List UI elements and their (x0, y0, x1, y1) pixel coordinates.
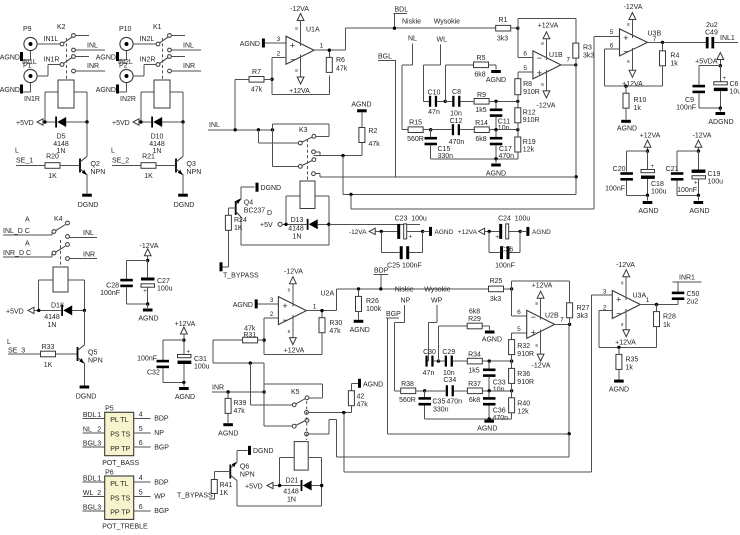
svg-text:470n: 470n (447, 399, 463, 406)
op-amp U1B (533, 51, 563, 79)
op-amp U1A (286, 27, 320, 65)
wire U2B out down (568, 324, 570, 433)
svg-text:Q4: Q4 (244, 200, 253, 207)
svg-text:4: 4 (139, 411, 143, 418)
net label IN1L (44, 36, 59, 43)
ground AGND C23 (423, 227, 454, 236)
svg-text:BGL: BGL (83, 504, 97, 511)
svg-text:R29: R29 (468, 316, 481, 323)
ground ADGND (708, 108, 733, 126)
svg-text:100nF: 100nF (676, 105, 696, 112)
power -12VA U1B (537, 70, 556, 110)
svg-text:AGND: AGND (233, 302, 253, 309)
node C30/C29 junction (437, 326, 467, 363)
svg-text:10n: 10n (493, 386, 505, 393)
pin 1 output U3A (640, 297, 678, 306)
svg-text:AGND: AGND (218, 431, 238, 438)
svg-text:DGND: DGND (261, 185, 282, 192)
svg-text:2: 2 (97, 490, 101, 497)
ground DGND (78, 175, 99, 210)
relay coil K2 (58, 80, 74, 108)
resistor R34 (467, 352, 502, 375)
svg-text:P9: P9 (23, 26, 32, 33)
wire (350, 194, 352, 209)
capacitor C32 (137, 356, 169, 383)
ground DGND Q6 (248, 446, 274, 455)
svg-text:IN2R: IN2R (140, 57, 156, 64)
ground AGND at U2A pin3 (233, 299, 279, 308)
svg-text:910R: 910R (523, 89, 540, 96)
wire (37, 43, 60, 45)
svg-text:C29: C29 (442, 349, 455, 356)
svg-text:K3: K3 (299, 127, 308, 134)
svg-text:AGND: AGND (240, 41, 260, 48)
resistor R32 (509, 333, 534, 361)
svg-text:1k: 1k (670, 61, 678, 68)
svg-text:5: 5 (139, 426, 143, 433)
svg-text:10n: 10n (443, 370, 455, 377)
wire (286, 196, 300, 224)
relay switch K4 (3, 216, 69, 266)
svg-text:2: 2 (270, 311, 274, 318)
svg-text:K1: K1 (153, 24, 162, 31)
transistor Q5 (77, 310, 103, 364)
power -12VA U3B (624, 4, 643, 38)
svg-text:+: + (537, 68, 542, 78)
diode D10 (139, 117, 184, 156)
svg-text:U2B: U2B (545, 313, 559, 320)
svg-text:D18: D18 (51, 303, 64, 310)
svg-text:47k: 47k (336, 66, 348, 73)
wire INR stub (69, 252, 97, 259)
svg-text:1K: 1K (48, 173, 57, 180)
svg-text:-12VA: -12VA (537, 103, 556, 110)
power +12VA U2A (284, 315, 305, 355)
wire INR routing (213, 340, 264, 426)
svg-text:100u: 100u (708, 179, 724, 186)
capacitor C15 (425, 130, 454, 160)
svg-text:Niskie: Niskie (402, 19, 421, 26)
svg-text:R14: R14 (475, 120, 488, 127)
svg-text:100nF: 100nF (137, 356, 157, 363)
svg-text:1: 1 (97, 476, 101, 483)
capacitor C6 (714, 66, 740, 109)
svg-text:12k: 12k (523, 147, 535, 154)
capacitor C34 (425, 377, 468, 396)
wire K3 common1 stub (258, 130, 298, 143)
svg-text:R28: R28 (663, 314, 676, 321)
svg-text:1k5: 1k5 (468, 368, 479, 375)
net label BGP (386, 311, 401, 434)
svg-text:R9: R9 (477, 92, 486, 99)
svg-text:U1A: U1A (306, 27, 320, 34)
svg-text:1K: 1K (220, 490, 229, 497)
resistor R7 (235, 69, 272, 94)
svg-text:560R: 560R (407, 136, 424, 143)
net label INL1 (720, 35, 738, 42)
wire INL stub (171, 43, 201, 51)
pin 6 wire U3B (604, 42, 626, 86)
svg-text:DGND: DGND (78, 202, 99, 209)
svg-text:+: + (694, 180, 698, 186)
power -12VA U2B (532, 330, 551, 370)
svg-text:SE_1: SE_1 (16, 158, 33, 165)
resistor R35 (616, 347, 639, 379)
svg-text:+5VD: +5VD (245, 484, 263, 491)
label Wysokie bottom (424, 287, 450, 294)
node R38/C34/C35 junction (423, 389, 426, 392)
svg-text:4148: 4148 (283, 489, 299, 496)
wire INL stub (69, 230, 97, 238)
wire K5 throw2b zigzag (308, 419, 336, 457)
pin 5 wire (518, 65, 533, 72)
capacitor C11 (490, 101, 510, 132)
svg-text:P6: P6 (105, 469, 114, 476)
svg-text:+: + (143, 289, 147, 295)
wire to U3B pin5 (351, 208, 594, 210)
resistor R36 (509, 361, 534, 391)
svg-text:AGND: AGND (477, 426, 497, 433)
resistor R25 (489, 278, 512, 303)
svg-text:C49: C49 (705, 30, 718, 37)
svg-text:IN1R: IN1R (44, 57, 60, 64)
pin 5 wire U2B (512, 326, 527, 333)
svg-text:AGND: AGND (96, 87, 116, 94)
resistor R21 (141, 154, 175, 181)
svg-text:INR: INR (212, 385, 224, 392)
power +12VA U3B (622, 48, 643, 88)
connector P9 (23, 26, 37, 51)
capacitor C27 (141, 261, 173, 305)
resistor R42 (348, 391, 368, 413)
svg-text:R15: R15 (409, 120, 422, 127)
capacitor C35 (419, 391, 463, 419)
terminal T_BYPASS (220, 262, 259, 279)
svg-text:+5VD: +5VD (6, 309, 24, 316)
svg-text:1N: 1N (293, 234, 302, 241)
svg-text:1: 1 (646, 297, 650, 304)
resistor R5 (474, 55, 497, 79)
svg-text:910R: 910R (517, 351, 534, 358)
svg-text:330n: 330n (433, 407, 449, 414)
node Y wire (494, 128, 519, 131)
svg-text:R12: R12 (523, 110, 536, 117)
svg-text:+12VA: +12VA (640, 133, 661, 140)
svg-text:R37: R37 (468, 381, 481, 388)
svg-text:R4: R4 (670, 53, 679, 60)
capacitor C50 (672, 282, 700, 306)
svg-text:+: + (616, 295, 621, 305)
power -12VA U2A (284, 269, 303, 307)
svg-text:47k: 47k (329, 328, 341, 335)
capacitor C30 (423, 349, 439, 377)
svg-text:−: − (282, 315, 287, 325)
pin 2 wire U2A (262, 311, 278, 355)
svg-text:C10: C10 (428, 90, 441, 97)
power -12VA (290, 6, 309, 46)
capacitor C26 (489, 231, 520, 269)
svg-text:1N: 1N (287, 497, 296, 504)
resistor R27 (567, 303, 590, 325)
svg-text:C8: C8 (452, 89, 461, 96)
svg-text:IN1L: IN1L (44, 36, 59, 43)
svg-text:BGP: BGP (386, 311, 401, 318)
ground AGND (138, 304, 158, 323)
ground DGND (174, 175, 195, 210)
svg-text:3: 3 (277, 36, 281, 43)
svg-text:R40: R40 (517, 401, 530, 408)
wire (315, 196, 329, 245)
svg-text:WP: WP (154, 494, 166, 501)
svg-text:910R: 910R (523, 117, 540, 124)
wire Q6 top to DGND (237, 450, 248, 462)
svg-text:IN1R: IN1R (24, 96, 40, 103)
resistor R2 (359, 128, 380, 156)
power +5VD (16, 119, 55, 127)
wire K5 box top (264, 384, 322, 398)
power +12VA (175, 321, 196, 340)
wire R7 to INL (234, 79, 236, 130)
svg-text:C50: C50 (687, 291, 700, 298)
svg-text:R39: R39 (234, 400, 247, 407)
resistor R8 (515, 72, 540, 102)
power +12VA U3A (621, 309, 630, 337)
svg-text:INL_D C: INL_D C (3, 228, 30, 235)
connector P5 POT_BASS (83, 406, 170, 467)
svg-text:6: 6 (517, 309, 521, 316)
svg-text:R33: R33 (42, 344, 55, 351)
svg-text:+5V: +5V (260, 222, 273, 229)
relay coil K4 (53, 267, 68, 292)
wire feedback U3B (604, 85, 662, 88)
resistor R12 (515, 101, 540, 129)
svg-text:NP: NP (401, 298, 411, 305)
svg-text:PL TL: PL TL (110, 481, 128, 488)
svg-text:C20: C20 (613, 166, 626, 173)
pin 3 wire U3A (592, 289, 613, 296)
svg-text:R35: R35 (626, 357, 639, 364)
diode D5 (43, 117, 88, 156)
svg-text:3k3: 3k3 (490, 296, 501, 303)
pin 3 U2A (270, 297, 274, 304)
pin 2 wire U3A (599, 305, 656, 349)
net label IN1R (44, 57, 60, 64)
svg-text:AGND: AGND (617, 126, 637, 133)
svg-text:T_BYPASS: T_BYPASS (177, 493, 213, 500)
resistor R1 (496, 17, 518, 43)
wire (127, 302, 150, 305)
svg-text:AGND: AGND (689, 208, 709, 215)
svg-text:3: 3 (97, 504, 101, 511)
svg-text:NL: NL (83, 426, 92, 433)
connector P1 (23, 63, 37, 83)
svg-text:100u: 100u (651, 189, 667, 196)
svg-text:+: + (282, 301, 287, 311)
connector P6 POT_TREBLE (83, 469, 170, 530)
svg-text:BGL: BGL (83, 441, 97, 448)
ground AGND (0, 83, 31, 94)
power -12VA (140, 243, 159, 261)
ground DGND (76, 363, 97, 401)
svg-text:R34: R34 (468, 352, 481, 359)
svg-text:POT_TREBLE: POT_TREBLE (102, 524, 148, 531)
svg-text:C28: C28 (106, 283, 119, 290)
svg-text:IN2R: IN2R (120, 96, 136, 103)
svg-text:100nF: 100nF (100, 290, 120, 297)
svg-text:C31: C31 (194, 356, 207, 363)
svg-text:AGND: AGND (351, 102, 371, 109)
svg-text:INR_D C: INR_D C (3, 250, 31, 257)
ground AGND at U1A pin3 (240, 39, 286, 49)
relay coil K3 (300, 181, 315, 209)
svg-text:P1: P1 (23, 63, 32, 70)
svg-text:NPN: NPN (187, 169, 202, 176)
svg-text:T_BYPASS: T_BYPASS (223, 273, 259, 280)
svg-text:5: 5 (610, 29, 614, 36)
svg-text:BDL: BDL (83, 476, 97, 483)
svg-text:+12VA: +12VA (538, 23, 559, 30)
relay switch K1 (153, 24, 185, 80)
svg-text:K2: K2 (57, 24, 66, 31)
svg-text:U1B: U1B (549, 52, 563, 59)
node C10/C8 junction (444, 65, 474, 103)
label Wysokie (434, 19, 460, 26)
pin 1 output U2A (306, 289, 336, 312)
svg-text:D: D (267, 210, 272, 217)
power +12VA (289, 55, 310, 95)
svg-text:−: − (623, 47, 628, 57)
svg-text:100u: 100u (157, 286, 173, 293)
power -12VA block (693, 133, 712, 153)
svg-text:1N: 1N (48, 322, 57, 329)
wire (163, 339, 186, 360)
op-amp U3B (620, 29, 662, 57)
svg-text:4148: 4148 (288, 226, 304, 233)
ground AGND R35 (609, 380, 629, 394)
svg-text:PS TS: PS TS (110, 432, 130, 439)
svg-text:AGND: AGND (175, 394, 195, 401)
pin 7 output (561, 57, 578, 67)
svg-text:C25 100nF: C25 100nF (387, 263, 422, 270)
svg-text:3: 3 (97, 441, 101, 448)
svg-text:+5VD: +5VD (16, 120, 34, 127)
svg-text:-12VA: -12VA (624, 4, 643, 11)
svg-text:R20: R20 (46, 154, 59, 161)
capacitor C36 (483, 391, 508, 422)
svg-text:C9: C9 (685, 97, 694, 104)
svg-text:1k: 1k (634, 105, 642, 112)
wire K3 box top (273, 124, 329, 136)
power +12VA U1B (538, 23, 559, 61)
svg-text:10n: 10n (498, 125, 510, 132)
svg-text:BDP: BDP (154, 479, 169, 486)
svg-text:D10: D10 (151, 134, 164, 141)
svg-text:10n: 10n (450, 111, 462, 118)
power +5VD (112, 119, 151, 127)
net label INR1 (672, 275, 701, 283)
svg-text:-12VA: -12VA (349, 229, 367, 236)
relay coil K5 (294, 442, 308, 471)
wire AGND rail bottom network (425, 417, 512, 420)
svg-text:560R: 560R (399, 397, 416, 404)
pin 2 wire (270, 51, 286, 95)
connector P2 (119, 63, 133, 83)
svg-text:BGL: BGL (378, 54, 392, 61)
resistor R24 (225, 208, 247, 267)
power +5VD (6, 307, 61, 315)
svg-text:INL1: INL1 (720, 35, 735, 42)
svg-text:NPN: NPN (91, 169, 106, 176)
svg-text:BDP: BDP (374, 268, 389, 275)
capacitor C28 (100, 279, 133, 304)
svg-text:WL: WL (437, 37, 448, 44)
wire K5 throw1b to R42 (308, 411, 351, 414)
pin 7 output U3B (648, 36, 706, 44)
svg-text:AGND: AGND (532, 229, 551, 236)
svg-text:7: 7 (566, 57, 570, 64)
transistor Q2 (79, 122, 105, 176)
power +5V terminal (260, 222, 307, 229)
svg-text:C19: C19 (708, 171, 721, 178)
svg-text:R1: R1 (499, 17, 508, 24)
svg-text:BDP: BDP (154, 416, 169, 423)
pin 6 wire U2B (512, 309, 527, 316)
svg-text:R21: R21 (142, 154, 155, 161)
net label NL (402, 36, 417, 130)
svg-text:C6: C6 (730, 81, 739, 88)
svg-text:INL: INL (209, 122, 220, 129)
power +12VA U2B (532, 283, 553, 320)
diode D21 (278, 478, 324, 504)
svg-text:A: A (25, 217, 30, 224)
svg-text:AGND: AGND (609, 387, 629, 394)
svg-text:2u2: 2u2 (687, 299, 699, 306)
capacitor C18 (641, 151, 667, 195)
svg-text:C35: C35 (433, 399, 446, 406)
capacitor C33 (483, 361, 506, 393)
wire U1B out down (574, 65, 577, 195)
ground AGND R10 (617, 120, 637, 133)
svg-text:AGND: AGND (638, 208, 658, 215)
svg-text:PL TL: PL TL (110, 417, 128, 424)
relay switch K2 (57, 24, 89, 80)
ground AGND (96, 51, 127, 61)
svg-text:NL: NL (408, 36, 417, 43)
node R15/C12/C15 junction (429, 128, 432, 131)
wire (308, 457, 322, 506)
svg-text:R19: R19 (523, 139, 536, 146)
wire (37, 65, 60, 77)
svg-text:5: 5 (517, 326, 521, 333)
wire to U2B pin6 (511, 289, 513, 316)
resistor R19 (515, 130, 536, 159)
net label IN2L (140, 36, 155, 43)
svg-text:C30: C30 (423, 349, 436, 356)
svg-text:+5VD: +5VD (112, 120, 130, 127)
svg-text:4148: 4148 (149, 141, 165, 148)
wire feedback rail U2A (264, 333, 322, 355)
svg-text:A: A (25, 241, 30, 248)
svg-text:SE_3: SE_3 (8, 348, 25, 355)
svg-text:+12VA: +12VA (284, 348, 305, 355)
wire INR stub (171, 63, 201, 71)
wire K3 common2 stub (273, 130, 299, 167)
ground AGND R2 (351, 102, 371, 128)
ground AGND (96, 83, 127, 94)
svg-text:INL: INL (83, 230, 94, 237)
wire to R3 top (516, 18, 576, 43)
svg-text:+5VDA: +5VDA (695, 59, 718, 66)
